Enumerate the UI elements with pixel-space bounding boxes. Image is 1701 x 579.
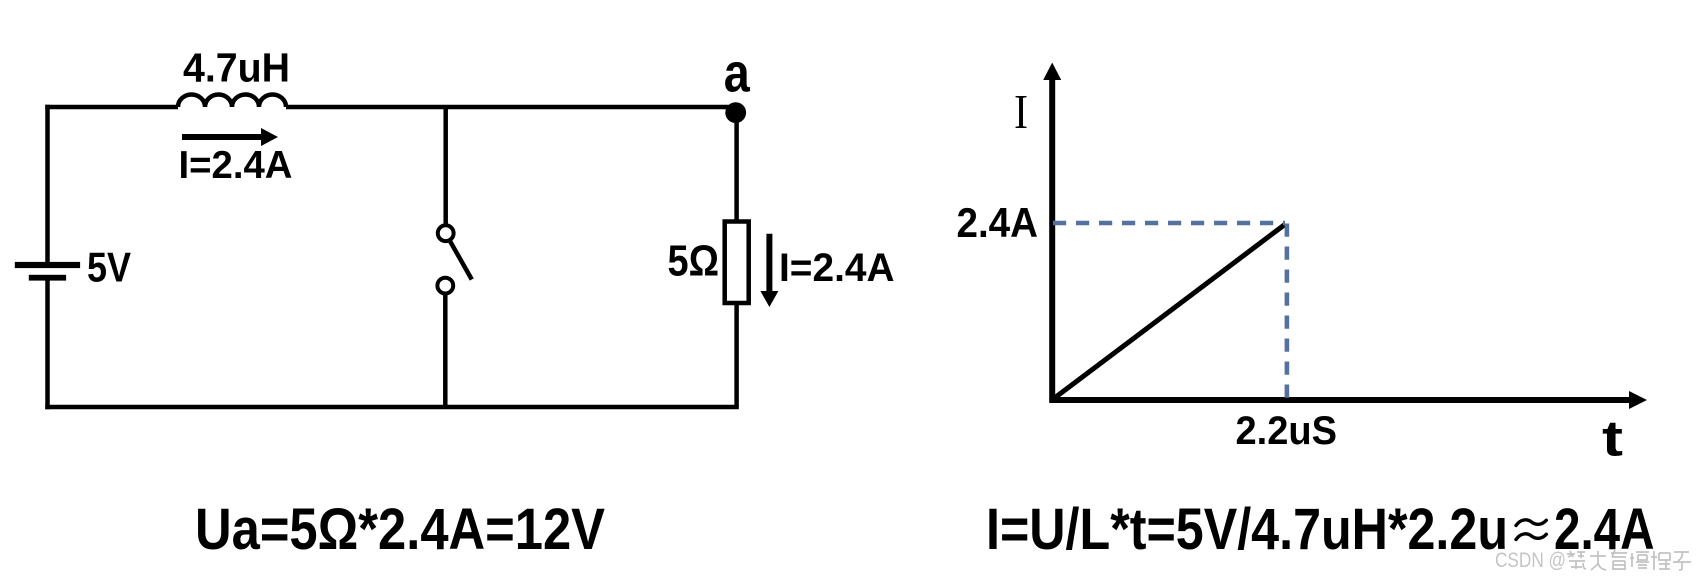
- svg-text:4.7uH: 4.7uH: [183, 45, 290, 91]
- svg-text:2.4A: 2.4A: [957, 199, 1039, 246]
- svg-text:Ua=5Ω*2.4A=12V: Ua=5Ω*2.4A=12V: [195, 497, 605, 562]
- svg-text:CSDN @: CSDN @: [1495, 548, 1566, 572]
- svg-text:5Ω: 5Ω: [668, 237, 720, 285]
- svg-text:t: t: [1602, 411, 1623, 467]
- svg-text:a: a: [724, 42, 750, 104]
- svg-text:2.2uS: 2.2uS: [1236, 409, 1338, 453]
- svg-text:I: I: [1014, 84, 1028, 139]
- svg-text:I=2.4A: I=2.4A: [779, 246, 895, 290]
- svg-text:I=2.4A: I=2.4A: [179, 144, 293, 187]
- svg-text:5V: 5V: [87, 243, 131, 290]
- svg-text:I=U/L*t=5V/4.7uH*2.2u: I=U/L*t=5V/4.7uH*2.2u: [986, 497, 1508, 562]
